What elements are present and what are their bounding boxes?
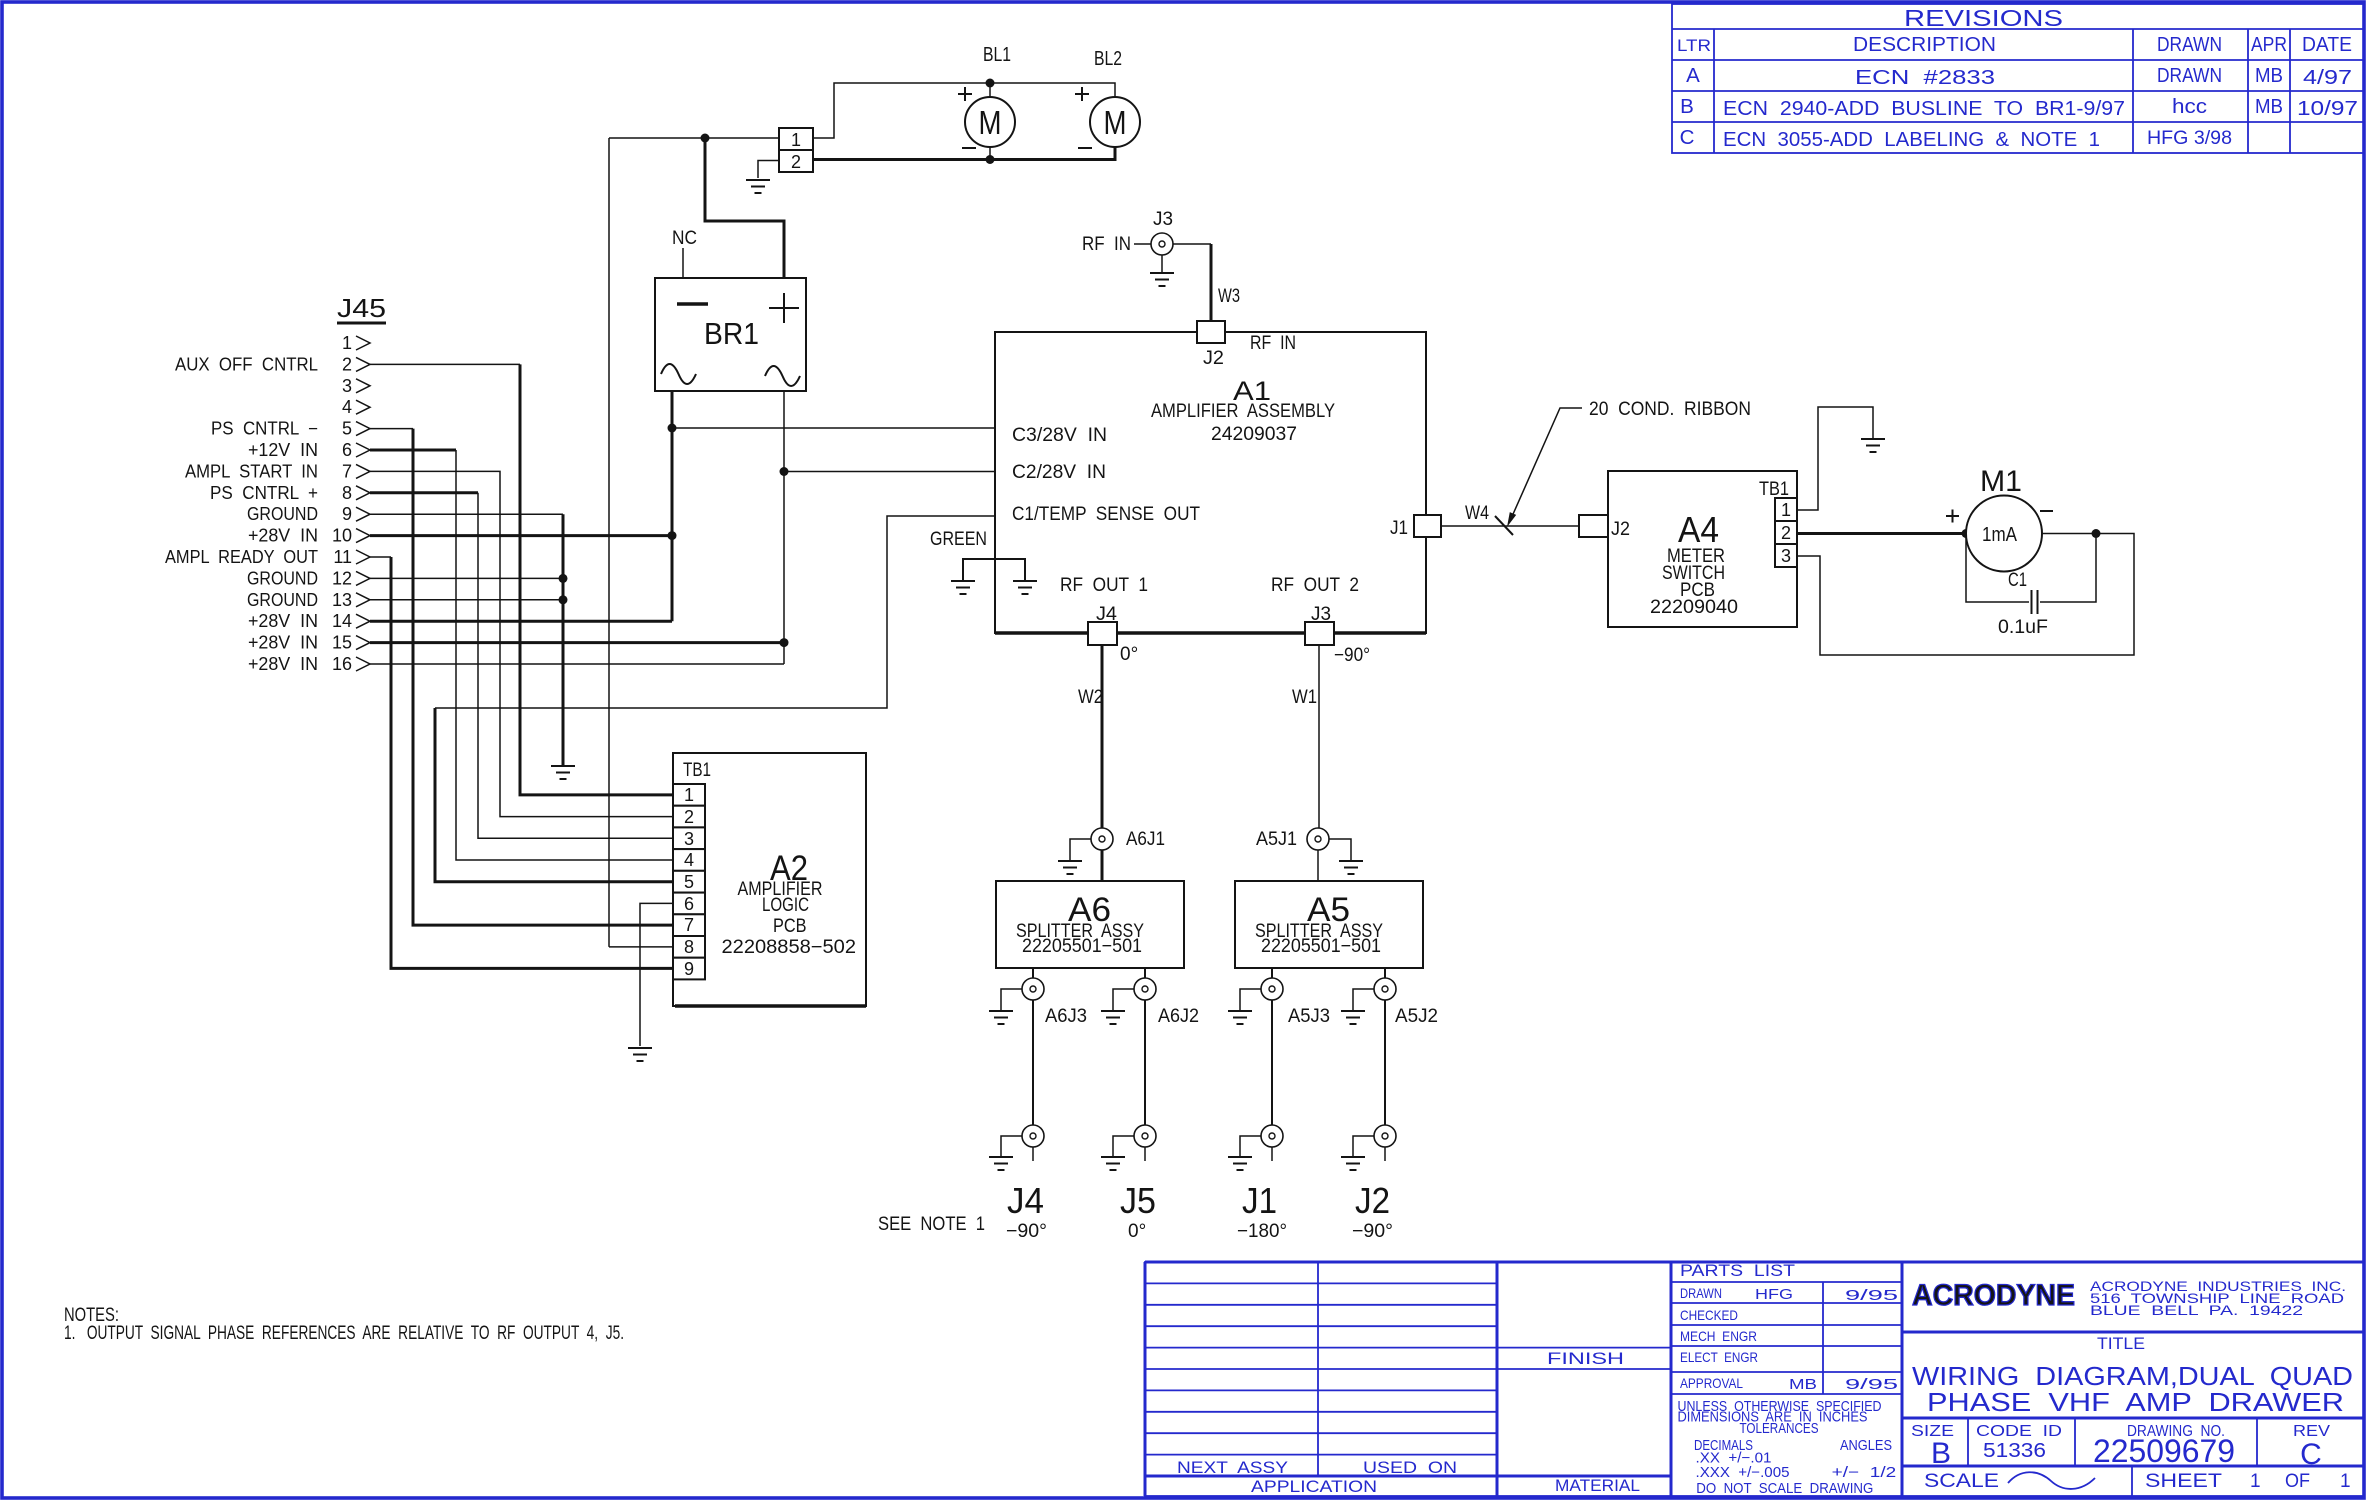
svg-text:8: 8 [342,483,352,503]
svg-text:LOGIC: LOGIC [762,895,809,916]
svg-text:SCALE: SCALE [1924,1471,1999,1492]
capacitor C1 branch [1966,534,2029,603]
BNC A6J1 [1091,828,1113,850]
wire: connector J1 ground arm [1240,1136,1261,1156]
size/code/drawing row [1967,1418,1969,1466]
svg-text:C2/28V IN: C2/28V IN [1012,462,1106,483]
wire: J45-9 to ground bus [370,513,563,515]
wire: A6J1 ground arm [1070,839,1091,860]
svg-text:ELECT ENGR: ELECT ENGR [1680,1349,1758,1365]
svg-text:W3: W3 [1218,286,1240,307]
svg-text:AMPL READY OUT: AMPL READY OUT [165,547,318,567]
svg-text:hcc: hcc [2172,95,2207,118]
svg-text:GROUND: GROUND [247,590,318,610]
wire W2 [1101,645,1104,828]
connector J2 on A1 [1197,321,1225,343]
A2 TB1 pin 2 [673,806,705,828]
company / title area [1902,1331,2364,1334]
wire: A5J3 ground arm [1240,989,1261,1010]
svg-text:51336: 51336 [1983,1440,2046,1462]
wire: connector J2 ground arm [1353,1136,1374,1156]
A2 TB1 pin 4 [673,849,705,871]
wire: A4 TB1-2 to M1 + [1797,532,1966,535]
svg-text:AMPL START IN: AMPL START IN [185,461,318,481]
output chain J1 [1228,968,1330,1242]
svg-text:+28V IN: +28V IN [248,654,318,674]
wire: feed down to BR1 + [705,138,784,278]
output chain J4 [989,968,1087,1242]
blower BL2 [1090,97,1140,147]
svg-text:20 COND. RIBBON: 20 COND. RIBBON [1589,399,1751,420]
svg-text:BR1: BR1 [704,316,759,351]
svg-text:DESCRIPTION: DESCRIPTION [1853,33,1996,56]
svg-text:12: 12 [332,568,352,588]
svg-text:+12V IN: +12V IN [248,440,318,460]
svg-text:11: 11 [333,547,352,567]
svg-text:C3/28V IN: C3/28V IN [1012,425,1107,446]
svg-text:PS CNTRL −: PS CNTRL − [211,419,318,439]
svg-text:C1: C1 [2008,570,2027,591]
svg-text:1: 1 [2340,1471,2351,1492]
svg-text:22205501−501: 22205501−501 [1022,936,1142,957]
svg-text:BL1: BL1 [983,44,1011,66]
wire: connector J5 ground arm [1113,1136,1134,1156]
wire: bus down left side to A2 TB1-8 [608,138,610,947]
output chain J2 [1341,968,1438,1242]
svg-text:A5J3: A5J3 [1288,1006,1330,1027]
junction C2 feed [780,467,789,476]
BNC A5J3 [1261,978,1283,1000]
NC stub on BR1 [682,248,684,278]
svg-text:HFG: HFG [1755,1286,1793,1303]
svg-text:A5J1: A5J1 [1256,829,1297,850]
ground at J3 [1150,273,1174,286]
svg-text:7: 7 [342,461,352,481]
svg-text:DATE: DATE [2302,33,2352,56]
ribbon cable slash [1495,516,1513,535]
connector J4 on A1 [1088,622,1117,645]
svg-text:1: 1 [342,333,352,353]
title block [1145,1261,2364,1497]
A2 TB1 pin 9 [673,958,705,980]
A2 TB1 pin 8 [673,936,705,958]
svg-text:1mA: 1mA [1982,524,2018,546]
svg-text:REVISIONS: REVISIONS [1904,5,2063,31]
svg-text:15: 15 [332,633,352,653]
svg-text:C: C [2300,1438,2322,1471]
svg-text:APPLICATION: APPLICATION [1251,1478,1377,1496]
svg-text:−180°: −180° [1237,1221,1287,1242]
svg-text:RF IN: RF IN [1250,333,1296,354]
svg-text:BL2: BL2 [1094,48,1122,70]
A2 TB1 pin 1 [673,784,705,806]
wire: J45-7 to TB1-2 [370,471,673,816]
svg-text:3: 3 [684,829,694,849]
wire: TB1-8 stub [609,946,673,948]
svg-text:4: 4 [684,850,694,870]
wire: green ground bracket [963,559,1025,580]
svg-text:16: 16 [332,654,352,674]
meter switch PCB A4 [1608,471,1797,627]
svg-text:RF OUT 1: RF OUT 1 [1060,575,1148,596]
svg-text:9: 9 [342,504,352,524]
BNC A5J1 [1307,828,1329,850]
svg-text:MB: MB [2255,64,2283,87]
svg-text:ECN 3055-ADD LABELING & NO: ECN 3055-ADD LABELING & NOTE 1 [1723,128,2100,151]
svg-text:GREEN: GREEN [930,529,987,550]
svg-text:5: 5 [342,419,352,439]
output chain J5 [1101,968,1199,1242]
svg-text:J5: J5 [1120,1180,1156,1221]
svg-text:9/95: 9/95 [1845,1376,1898,1393]
svg-text:J3: J3 [1311,604,1331,625]
svg-text:10: 10 [332,526,352,546]
svg-text:5: 5 [684,872,694,892]
svg-text:DRAWN: DRAWN [1680,1285,1722,1301]
meter M1 [1966,496,2042,572]
BNC A6J2 [1134,978,1156,1000]
svg-text:1: 1 [2250,1471,2261,1492]
wire: - bus from terminal 2 to blowers [808,147,1115,160]
svg-text:A6J2: A6J2 [1158,1006,1199,1027]
ground at A5J3 [1228,1011,1252,1024]
wire: C2/28V IN to A1 [784,471,995,473]
BNC connector J2 [1374,1125,1396,1147]
svg-text:MB: MB [1789,1376,1817,1393]
junction M1 + [1962,529,1971,538]
svg-text:W2: W2 [1078,687,1103,708]
svg-text:J4: J4 [1007,1180,1044,1221]
ground green right [1013,581,1037,594]
svg-text:A6J3: A6J3 [1045,1006,1087,1027]
svg-text:APPROVAL: APPROVAL [1680,1375,1743,1391]
wire: splitter output to J5 [1144,968,1146,1147]
wire: J45-13 to ground bus [370,599,563,601]
svg-text:PCB: PCB [773,916,807,937]
svg-text:22509679: 22509679 [2093,1433,2235,1469]
wire: + bus from terminal 1 to blowers [813,83,1115,138]
svg-text:J3: J3 [1153,209,1173,230]
junction pin10 feed [668,531,677,540]
A2 TB1 pin 6 [673,893,705,915]
ground at A6J3 [989,1011,1013,1024]
terminal block pin 2 [779,150,813,172]
svg-text:1. OUTPUT SIGNAL PHASE RE: 1. OUTPUT SIGNAL PHASE REFERENCES ARE RE… [64,1323,624,1344]
svg-text:+28V IN: +28V IN [248,633,318,653]
parts list column [1671,1281,1902,1283]
svg-text:LTR: LTR [1677,36,1711,55]
svg-text:AMPLIFIER ASSEMBLY: AMPLIFIER ASSEMBLY [1151,401,1335,422]
svg-text:10/97: 10/97 [2297,97,2358,120]
BNC connector J3 [1151,233,1173,255]
blower BL1 [965,97,1015,147]
svg-text:22209040: 22209040 [1650,597,1738,618]
svg-text:AUX OFF CNTRL: AUX OFF CNTRL [175,354,318,374]
wire: J45-8 to TB1-3 [370,491,478,494]
svg-text:4/97: 4/97 [2303,66,2352,89]
BNC A5J2 [1374,978,1396,1000]
ground at connector J2 [1341,1157,1365,1170]
wire: J45-5 to TB1-7 [370,428,413,430]
wire: J5 tail stub [1144,1147,1146,1161]
wire: splitter output to J4 [1032,968,1034,1147]
A2 TB1 pin 5 [673,871,705,893]
junction M1 - [2092,529,2101,538]
splitter assembly A6 [996,881,1184,968]
svg-text:.XX +/−.01: .XX +/−.01 [1696,1450,1772,1466]
svg-text:FINISH: FINISH [1547,1350,1624,1368]
svg-text:DRAWN: DRAWN [2157,64,2222,87]
svg-text:ANGLES: ANGLES [1840,1438,1892,1454]
wire: A6J2 ground arm [1113,989,1134,1010]
connector J3 on A1 bottom [1305,622,1334,645]
wire: J3 to W3 corner [1162,243,1211,245]
svg-text:TB1: TB1 [683,760,711,781]
wire: J45-12 to ground bus [370,577,563,579]
svg-text:−90°: −90° [1352,1221,1393,1242]
svg-text:B: B [1680,95,1694,118]
svg-text:PARTS LIST: PARTS LIST [1680,1261,1795,1280]
A2 TB1 pin 3 [673,827,705,849]
svg-text:PHASE VHF AMP DRAWER: PHASE VHF AMP DRAWER [1927,1387,2344,1417]
wire: A5J1 stub to A5 [1317,839,1319,881]
svg-text:M1: M1 [1980,465,2022,498]
svg-text:14: 14 [332,611,352,631]
svg-text:13: 13 [332,590,352,610]
svg-text:4: 4 [342,397,352,417]
ground bus vertical [562,514,565,765]
svg-text:−90°: −90° [1006,1221,1047,1242]
wire: A4 TB1-1 to ground [1797,407,1873,510]
svg-text:TOLERANCES: TOLERANCES [1740,1421,1819,1437]
svg-text:BLUE BELL PA. 19422: BLUE BELL PA. 19422 [2090,1302,2303,1318]
ground at A6J1 [1058,861,1082,874]
junction at node feed [701,134,710,143]
wire: BR1 left AC terminal down [671,391,674,621]
wire: splitter output to J1 [1271,968,1273,1147]
svg-text:J45: J45 [337,293,386,323]
junction 12 [559,574,568,583]
svg-text:A6J1: A6J1 [1126,829,1165,850]
wire: A4 TB1-3 loop to M1 - [1797,534,2134,656]
svg-text:M: M [979,104,1002,141]
svg-text:9: 9 [684,959,694,979]
svg-text:3: 3 [1781,546,1791,566]
svg-text:+28V IN: +28V IN [248,526,318,546]
svg-text:1: 1 [684,785,694,805]
svg-text:−90°: −90° [1334,645,1370,666]
svg-text:2: 2 [791,152,801,172]
svg-text:W1: W1 [1292,687,1317,708]
svg-text:24209037: 24209037 [1211,424,1297,445]
svg-text:M: M [1104,104,1127,141]
svg-text:6: 6 [342,440,352,460]
wire: BL1 + stub [989,83,991,97]
svg-text:C1/TEMP SENSE OUT: C1/TEMP SENSE OUT [1012,504,1200,525]
wire: J45-15 to BR1 node [370,641,784,644]
svg-text:CODE ID: CODE ID [1976,1423,2062,1440]
svg-text:22208858−502: 22208858−502 [722,937,857,958]
svg-text:ACRODYNE: ACRODYNE [1912,1279,2075,1312]
A4 TB1 pin 1 [1775,498,1797,521]
svg-text:B: B [1931,1437,1951,1470]
svg-text:DO NOT SCALE DRAWING: DO NOT SCALE DRAWING [1696,1481,1873,1497]
svg-text:A5J2: A5J2 [1395,1006,1438,1027]
ground at connector J5 [1101,1157,1125,1170]
svg-text:8: 8 [684,937,694,957]
wire: TB1-6 to ground [640,903,673,1046]
splitter assembly A5 [1235,881,1423,968]
svg-text:+28V IN: +28V IN [248,611,318,631]
wire: C1/TEMP SENSE to TB1-5 [435,516,995,708]
svg-text:SEE NOTE 1: SEE NOTE 1 [878,1214,985,1235]
svg-text:9/95: 9/95 [1845,1287,1898,1304]
svg-text:6: 6 [684,894,694,914]
A2 TB1 pin 7 [673,914,705,936]
capacitor C1 plates [2031,590,2033,614]
svg-text:J2: J2 [1203,348,1224,369]
svg-text:7: 7 [684,915,694,935]
svg-text:NEXT ASSY: NEXT ASSY [1177,1459,1288,1477]
wire: J3 ground stub [1161,255,1163,272]
wire: A6J3 ground arm [1001,989,1022,1010]
wire: J1 tail stub [1271,1147,1273,1161]
junction BL1 + [986,79,995,88]
wire: J45-10 to BR1 node [370,534,672,537]
svg-text:GROUND: GROUND [247,568,318,588]
wire: A5J1 ground arm [1329,839,1351,860]
connector J2 on A4 [1579,515,1608,537]
svg-text:1: 1 [1781,500,1791,520]
ground at A5J2 [1341,1011,1365,1024]
A4 TB1 pin 3 [1775,544,1797,567]
BNC connector J1 [1261,1125,1283,1147]
svg-text:ECN 2940-ADD BUSLINE TO BR: ECN 2940-ADD BUSLINE TO BR1-9/97 [1723,97,2125,120]
bridge rectifier BR1 [655,278,806,391]
svg-text:MB: MB [2255,95,2283,118]
svg-text:A: A [1686,64,1700,87]
ground green left [951,581,975,594]
svg-text:TITLE: TITLE [2097,1334,2145,1353]
junction C3 feed [668,424,677,433]
wire: J45-11 to TB1-9 [370,556,391,558]
junction 13 [559,595,568,604]
svg-text:0.1uF: 0.1uF [1998,617,2048,638]
svg-text:J1: J1 [1242,1180,1277,1221]
BNC connector J5 [1134,1125,1156,1147]
terminal block pin 1 [779,128,813,150]
wire: connector J4 ground arm [1001,1136,1022,1156]
svg-text:NC: NC [672,228,697,249]
ground below A2 [628,1048,652,1061]
wire: BL1 - stub [989,147,991,160]
wire: A6J1 stub to A6 [1101,839,1104,881]
wire: A5J2 ground arm [1353,989,1374,1010]
ground at bus [551,766,575,779]
connector J45 [165,293,386,674]
wire: C3/28V IN to A1 [672,427,995,429]
svg-text:J2: J2 [1355,1180,1390,1221]
wire W3 down to J2 [1210,244,1213,321]
svg-text:PS CNTRL +: PS CNTRL + [210,483,318,503]
svg-text:+/− 1/2: +/− 1/2 [1832,1465,1897,1481]
svg-text:J2: J2 [1611,519,1630,540]
svg-text:C: C [1680,126,1695,149]
svg-text:HFG 3/98: HFG 3/98 [2147,128,2232,149]
svg-text:W4: W4 [1465,503,1489,524]
amplifier assembly A1 [995,332,1426,633]
wire: terminal 2 to ground [758,161,779,179]
svg-text:J4: J4 [1096,604,1117,625]
BNC connector J4 [1022,1125,1044,1147]
svg-text:A4: A4 [1678,509,1719,550]
ground at A5J1 [1339,861,1363,874]
svg-text:0°: 0° [1128,1221,1146,1242]
wire: J45-16 to BR1 node [370,663,784,665]
svg-text:2: 2 [342,354,352,374]
svg-text:22205501−501: 22205501−501 [1261,936,1381,957]
A4 TB1 pin 2 [1775,521,1797,544]
ground at A6J2 [1101,1011,1125,1024]
svg-text:2: 2 [1781,523,1791,543]
wire: splitter output to J2 [1384,968,1386,1147]
left application grid [1317,1262,1319,1476]
svg-text:USED ON: USED ON [1363,1459,1457,1477]
wire: J45-2 to TB1-1 [370,363,520,365]
wire: J4 tail stub [1032,1147,1034,1161]
svg-text:.XXX +/−.005: .XXX +/−.005 [1696,1465,1790,1481]
wire: J2 tail stub [1384,1147,1386,1161]
svg-text:3: 3 [342,376,352,396]
finish / material column [1497,1347,1671,1349]
ground at connector J4 [989,1157,1013,1170]
svg-text:MATERIAL: MATERIAL [1555,1477,1640,1495]
junction BL1 - [986,155,995,164]
svg-text:MECH ENGR: MECH ENGR [1680,1328,1757,1344]
svg-text:SHEET: SHEET [2145,1471,2222,1492]
wire: J45-6 to TB1-4 [370,449,456,452]
ribbon callout leader [1510,408,1582,521]
svg-text:ECN #2833: ECN #2833 [1855,66,1995,89]
revisions table [1672,4,2364,153]
wire: BR1 right AC terminal down [783,391,785,664]
ground at terminal 2 [746,180,770,193]
ground at connector J1 [1228,1157,1252,1170]
svg-text:RF OUT 2: RF OUT 2 [1271,575,1359,596]
svg-text:RF IN: RF IN [1082,234,1131,255]
svg-text:J1: J1 [1390,518,1408,539]
connector J1 on A1 [1414,515,1441,537]
BNC A6J3 [1022,978,1044,1000]
svg-text:1: 1 [791,130,801,150]
svg-text:TB1: TB1 [1759,479,1789,500]
svg-text:CHECKED: CHECKED [1680,1307,1738,1323]
svg-text:2: 2 [684,807,694,827]
wire: J45-14 to BR1 node [370,620,672,623]
wire W1 [1318,645,1320,828]
svg-text:APR: APR [2251,33,2287,56]
wire W4 to A4 [1441,525,1579,527]
svg-text:GROUND: GROUND [247,504,318,524]
svg-text:DRAWN: DRAWN [2157,33,2222,56]
junction pin15 feed [780,638,789,647]
amplifier logic PCB A2 [673,753,866,1006]
ground above A4 [1861,439,1885,452]
svg-text:0°: 0° [1120,644,1138,665]
svg-text:OF: OF [2285,1471,2310,1492]
scale/sheet row [2131,1466,2133,1496]
wire: terminal 1 to bus junction [609,137,779,139]
